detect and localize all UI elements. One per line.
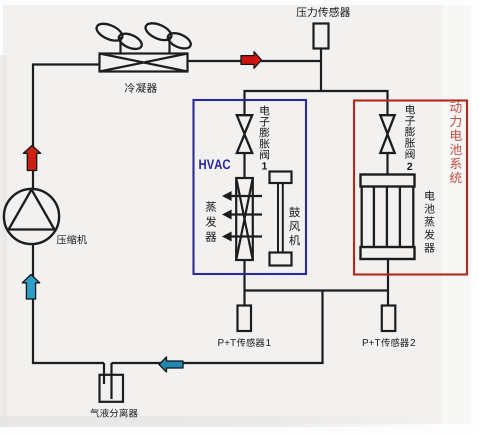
wire riser to bottom line (321, 291, 323, 364)
wire evaporator drop (243, 260, 245, 291)
evaporator air arrow 1 (222, 191, 262, 201)
label separator (90, 408, 137, 417)
label evaporator (206, 201, 217, 242)
label P+T sensor 1 (218, 338, 270, 347)
wire upper manifold horizontal (245, 90, 388, 92)
condenser fan 1 (94, 20, 144, 54)
red arrow right (liquid line) (241, 52, 262, 69)
battery system box (354, 101, 467, 275)
wire left vertical lower (compressor line) (32, 244, 34, 364)
blue arrow left (return line) (159, 357, 183, 372)
label blower (289, 207, 300, 246)
red arrow up (hot gas to condenser) (23, 146, 40, 171)
pressure sensor body (314, 24, 329, 49)
label pressure sensor (296, 7, 350, 17)
expansion valve 1 (237, 115, 252, 153)
label battery evaporator (424, 190, 434, 252)
blower body (270, 172, 292, 266)
battery evaporator (chiller) (361, 175, 415, 260)
evaporator body (236, 178, 253, 260)
wire P+T sensor2 stem (387, 291, 389, 306)
wire left vertical upper (compressor line) (32, 65, 34, 191)
wire bottom horizontal left of separator (32, 362, 104, 364)
wire valve1 feed (243, 90, 245, 116)
label condenser (125, 83, 157, 93)
HVAC box (194, 100, 307, 274)
label expansion valve 2 (405, 104, 415, 170)
wire condenser to pressure-sensor junction (187, 60, 321, 62)
label compressor (57, 235, 87, 244)
wire pressure sensor stem and drop (320, 49, 322, 92)
compressor triangle (9, 190, 55, 230)
wire P+T sensor1 stem (243, 291, 245, 306)
label expansion valve 1 (259, 105, 269, 169)
wire valve2 feed (386, 90, 388, 116)
label P+T sensor 2 (363, 338, 415, 347)
evaporator air arrow 3 (222, 232, 262, 242)
condenser fan 2 (143, 20, 193, 54)
wire separator outlet pipe (110, 363, 112, 399)
label HVAC (199, 159, 230, 169)
P+T sensor 2 body (382, 306, 396, 332)
gas-liquid separator body (100, 375, 124, 402)
P+T sensor 1 body (238, 306, 252, 332)
label battery system (450, 101, 462, 183)
wire lower manifold horizontal (245, 289, 389, 291)
blue arrow up (suction to compressor) (22, 275, 39, 300)
wire top-left horizontal to condenser (32, 63, 100, 65)
wire separator inlet pipe (103, 363, 105, 384)
condenser body (100, 54, 188, 72)
wire battery evaporator drop (387, 258, 389, 291)
expansion valve 2 (380, 115, 394, 153)
wire bottom horizontal right of separator (112, 362, 324, 364)
compressor circle (4, 189, 59, 244)
wire valve2 to battery evaporator (386, 152, 388, 175)
evaporator air arrow 2 (222, 210, 262, 220)
wire valve1 to evaporator (243, 152, 245, 178)
